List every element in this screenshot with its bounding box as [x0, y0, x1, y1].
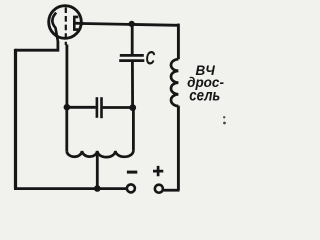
tube V1 grid (dashed)	[65, 7, 67, 45]
wire right rail upper	[177, 24, 180, 60]
wire grid lead	[66, 45, 69, 108]
wire left rail	[14, 49, 17, 189]
speck	[223, 116, 225, 118]
inductor L1 tank coil	[67, 151, 134, 158]
label minus sign	[127, 171, 137, 174]
wire coil tap down	[96, 152, 99, 189]
node grid-cap right junction	[129, 104, 136, 111]
wire coil right end up	[132, 108, 135, 151]
tube V1 anode lead	[75, 22, 84, 25]
wire cap C upper lead	[131, 24, 134, 56]
node bottom tap junction	[94, 185, 101, 192]
capacitor grid left plate	[96, 97, 99, 118]
terminal plus circle	[155, 185, 163, 193]
svg-text:сель: сель	[189, 87, 220, 104]
svg-text:C: C	[146, 48, 156, 70]
wire bottom right to plus terminal	[164, 189, 180, 192]
wire cap C lower lead	[131, 61, 134, 108]
terminal minus circle	[127, 184, 135, 192]
wire cathode step to left rail	[15, 41, 58, 50]
speck	[223, 122, 226, 125]
node top junction	[129, 21, 135, 27]
label plus sign	[153, 166, 163, 176]
wire right rail lower	[177, 106, 180, 190]
tube V1 envelope	[49, 6, 82, 39]
wire grid cap right lead	[103, 106, 133, 109]
inductor RF choke	[171, 59, 178, 106]
wire grid cap left lead	[67, 106, 96, 109]
node grid-cap left junction	[64, 104, 71, 111]
capacitor C bottom plate	[119, 59, 144, 62]
wire tank left vertical	[65, 106, 68, 151]
wire anode top	[83, 24, 179, 26]
capacitor grid right plate	[100, 97, 103, 118]
wire bottom	[14, 187, 127, 190]
tube V1 cathode	[52, 13, 58, 42]
capacitor C top plate	[120, 54, 144, 57]
tube V1 anode	[74, 17, 78, 30]
